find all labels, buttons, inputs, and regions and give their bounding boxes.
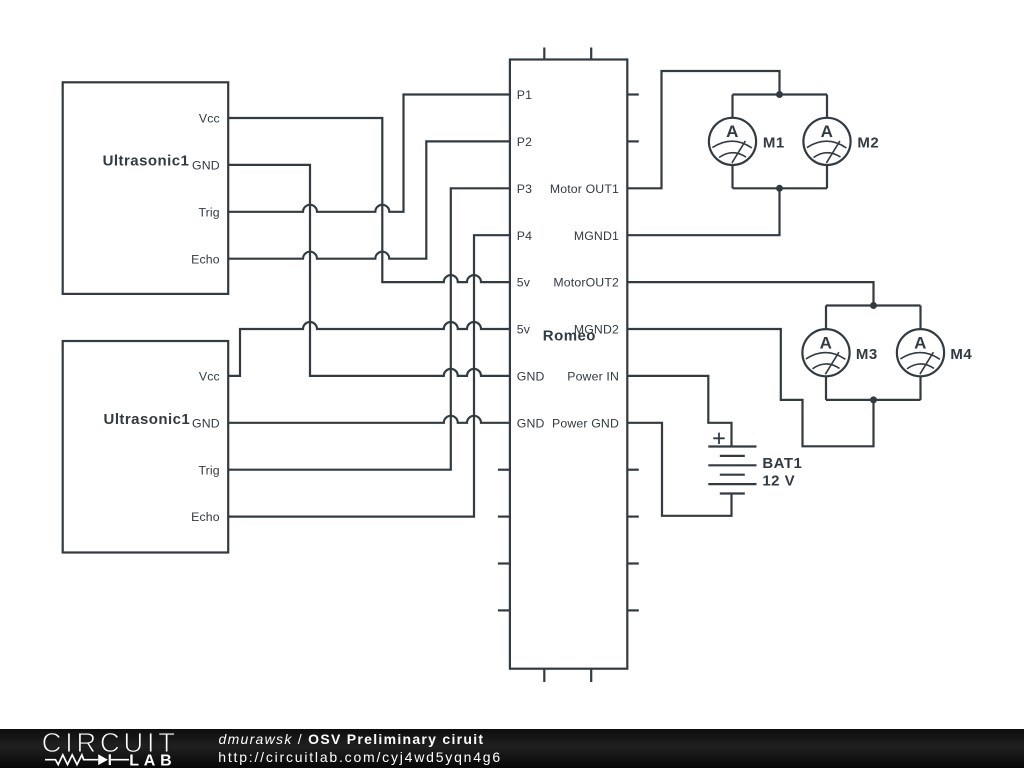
Romeo top pin stub 2: [590, 48, 592, 60]
wire U2 Echo to Romeo P4: [228, 235, 510, 516]
Romeo right pin stub row9: [627, 469, 639, 471]
svg-text:P3: P3: [517, 182, 532, 196]
svg-text:Power GND: Power GND: [552, 416, 619, 430]
svg-text:Romeo: Romeo: [543, 328, 596, 345]
svg-text:LAB: LAB: [129, 752, 176, 768]
svg-text:Power IN: Power IN: [567, 370, 619, 384]
svg-text:Vcc: Vcc: [199, 112, 220, 126]
junction node M3/M4 bottom: [870, 396, 877, 403]
footer logo resistor-diode line: [45, 755, 129, 765]
svg-text:GND: GND: [517, 370, 545, 384]
ammeter M1 scale arcs and needle: [712, 141, 752, 163]
ammeter M4 scale arcs and needle: [900, 352, 940, 374]
svg-text:A: A: [821, 122, 834, 141]
ammeter M4 circle: [897, 329, 944, 376]
svg-text:M3: M3: [856, 346, 878, 363]
wire U1 Vcc to Romeo 5v (first) with hops: [228, 118, 510, 282]
junction node M1/M2 bottom: [776, 185, 783, 192]
svg-text:M1: M1: [763, 135, 785, 152]
svg-text:GND: GND: [192, 159, 220, 173]
wire U1 GND to Romeo GND (first) with hops: [228, 165, 510, 376]
svg-text:5v: 5v: [517, 276, 531, 290]
wire M3/M4 top rail: [826, 304, 921, 306]
svg-text:Ultrasonic1: Ultrasonic1: [104, 411, 191, 428]
Romeo right pin stub row10: [627, 515, 639, 517]
ammeter M2 circle: [803, 118, 850, 165]
svg-text:http://circuitlab.com/cyj4wd5y: http://circuitlab.com/cyj4wd5yqn4g6: [218, 749, 502, 765]
Romeo left pin stub row9: [498, 469, 510, 471]
ultrasonic sensor Ultrasonic1 (top) body: [63, 82, 229, 294]
Romeo left pin stub row10: [498, 515, 510, 517]
wire M1/M2 bottom rail: [733, 187, 828, 189]
ammeter M3 scale arcs and needle: [806, 352, 846, 374]
svg-text:BAT1: BAT1: [762, 455, 802, 472]
wire Romeo MGND2 to M3/M4 bottom node: [627, 329, 873, 446]
wire Romeo Power GND to BAT1 negative: [627, 423, 731, 516]
junction node M3/M4 top: [870, 302, 877, 309]
svg-text:M2: M2: [857, 135, 879, 152]
svg-text:Ultrasonic1: Ultrasonic1: [103, 153, 190, 170]
footer bar: [0, 729, 1024, 768]
svg-text:Vcc: Vcc: [199, 370, 220, 384]
svg-text:A: A: [820, 333, 833, 352]
svg-text:P1: P1: [517, 88, 532, 102]
svg-text:Echo: Echo: [191, 510, 220, 524]
footer logo diode symbol: [98, 754, 108, 765]
ammeter M3 circle: [802, 329, 849, 376]
wire U1 Trig to Romeo P1 with hops: [228, 95, 510, 212]
Romeo bottom pin stub 1: [543, 669, 545, 682]
svg-text:MotorOUT2: MotorOUT2: [553, 276, 619, 290]
ammeter M2 scale arcs and needle: [807, 141, 847, 163]
ultrasonic sensor Ultrasonic1 (bottom) body: [63, 341, 229, 553]
junction node M1/M2 top: [776, 91, 783, 98]
Romeo left pin stub row11: [498, 562, 510, 564]
Romeo right pin stub row1: [627, 93, 639, 95]
wire U2 Vcc to Romeo 5v (second) with hops: [228, 322, 510, 376]
wire M2 bottom lead: [826, 165, 828, 188]
wire M4 bottom lead: [919, 376, 921, 400]
svg-text:M4: M4: [950, 346, 972, 363]
wire M4 top lead: [919, 306, 921, 330]
wire M3 bottom lead: [825, 376, 827, 400]
Romeo bottom pin stub 2: [590, 669, 592, 682]
wire Romeo MotorOUT2 to M3/M4 top node: [627, 282, 873, 305]
battery BAT1 plates: [708, 447, 756, 494]
Romeo left pin stub row12: [498, 609, 510, 611]
wire U2 Trig to Romeo P3: [228, 188, 510, 469]
svg-text:Echo: Echo: [191, 252, 220, 266]
svg-text:GND: GND: [517, 416, 545, 430]
Romeo right pin stub row2: [627, 140, 639, 142]
wire U2 GND to Romeo GND (second) with hops: [228, 416, 510, 423]
wire M1/M2 bottom node to Romeo MGND1: [627, 188, 779, 235]
svg-text:12 V: 12 V: [762, 473, 795, 490]
battery BAT1 plus sign: [713, 433, 724, 444]
wire M3/M4 bottom rail: [826, 399, 921, 401]
wire M3 top lead: [825, 306, 827, 330]
wire U1 Echo to Romeo P2 with hops: [228, 141, 510, 258]
wire Romeo Motor OUT1 to M1/M2 top node: [627, 71, 779, 188]
wire M1 bottom lead: [731, 165, 733, 188]
wire Romeo Power IN to BAT1 positive: [627, 376, 731, 447]
wire M1/M2 top rail: [733, 93, 828, 95]
svg-text:MGND1: MGND1: [574, 229, 619, 243]
Romeo top pin stub 1: [543, 48, 545, 60]
svg-text:GND: GND: [192, 416, 220, 430]
svg-text:Trig: Trig: [198, 463, 219, 477]
wire M2 top lead: [826, 95, 828, 118]
svg-text:Trig: Trig: [198, 205, 219, 219]
svg-text:A: A: [914, 333, 927, 352]
svg-text:P2: P2: [517, 135, 532, 149]
Romeo right pin stub row11: [627, 562, 639, 564]
ammeter M1 circle: [709, 118, 756, 165]
wire M1 top lead: [731, 95, 733, 118]
Romeo right pin stub row12: [627, 609, 639, 611]
svg-text:Motor OUT1: Motor OUT1: [550, 182, 619, 196]
microcontroller board Romeo body: [510, 60, 627, 669]
svg-text:A: A: [726, 122, 739, 141]
svg-text:dmurawsk / OSV Preliminary cir: dmurawsk / OSV Preliminary ciruit: [219, 731, 485, 747]
svg-text:5v: 5v: [517, 323, 531, 337]
svg-text:P4: P4: [517, 229, 532, 243]
